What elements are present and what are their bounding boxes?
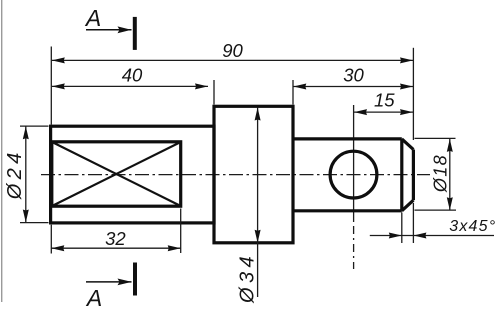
chamfer dim extension right [412,203,414,243]
svg-text:Ø34: Ø34 [236,252,258,304]
dim D24 top arrow [23,126,29,139]
svg-text:30: 30 [343,65,364,86]
chamfer dim line [370,235,494,237]
extension line knurl right (for 32) [180,209,182,254]
svg-text:A: A [85,285,102,311]
dim 30 line [293,86,413,88]
dim D34 top arrow [255,108,261,121]
section mark bottom bar [133,263,137,296]
shaft right section outline [293,139,402,211]
dim D24 line [25,126,27,222]
hole axis centerline [353,105,355,222]
dim D24 extension bottom [20,222,49,224]
dim D18 extension bottom [415,209,457,211]
dim D24 bottom arrow [23,210,29,223]
dim D18 top arrow [447,139,453,152]
knurl diagonal 2 [52,142,181,206]
dim D34 line [257,108,259,298]
svg-text:A: A [84,5,101,31]
section mark top bar [133,17,137,50]
svg-text:Ø24: Ø24 [4,148,26,200]
extension line middle-right (for 30) [292,80,294,105]
chamfer dim left arrow [389,233,402,239]
chamfer top slant [402,139,414,150]
svg-text:40: 40 [122,65,143,86]
shaft middle section outline [214,106,293,243]
dim 40 right arrow [195,83,208,89]
shaft left section outline [51,126,214,223]
extension line left lower (for 32) [50,225,52,254]
dim 15 left arrow [354,109,367,115]
dim 40 line [52,85,208,87]
shaft end face [412,150,415,201]
extension line middle-left (for 40) [213,80,215,105]
dim 32 left arrow [51,245,64,251]
knurl box [52,142,181,206]
chamfer dim extension left [401,213,403,244]
dim 90 line [52,59,413,61]
dim 90 right arrow [400,57,413,63]
dim D18 bottom arrow [447,197,453,210]
horizontal axis centerline [41,174,430,176]
dim D34 bottom arrow [255,230,261,243]
section mark bottom line [86,281,132,283]
dim D24 extension top [20,125,49,127]
dim 32 right arrow [168,245,181,251]
dim 15 line [354,111,413,113]
chamfer dim right arrow [413,233,426,239]
extension line left (for 90 and 40) [50,47,52,125]
section mark top line [86,29,132,31]
dim 30 right arrow [400,84,413,90]
section mark bottom arrow [118,279,132,286]
hole circle [330,151,377,198]
extension line right end (for 90,30,15) [412,48,414,140]
svg-text:3x45°: 3x45° [449,218,496,235]
svg-text:15: 15 [374,90,395,111]
chamfer edge line [400,139,403,211]
knurl diagonal 1 [52,142,181,206]
dim 32 line [51,247,180,249]
dim D18 line [449,139,451,210]
dim 90 left arrow [52,57,65,63]
dim D18 extension top [415,137,456,139]
dim 30 left arrow [293,84,306,90]
svg-text:32: 32 [105,228,126,249]
svg-text:Ø18: Ø18 [430,154,450,193]
svg-text:90: 90 [222,40,243,61]
chamfer bottom slant [402,200,414,211]
dim 40 left arrow [52,83,65,89]
section mark top arrow [118,26,132,33]
dim 15 right arrow [400,109,413,115]
